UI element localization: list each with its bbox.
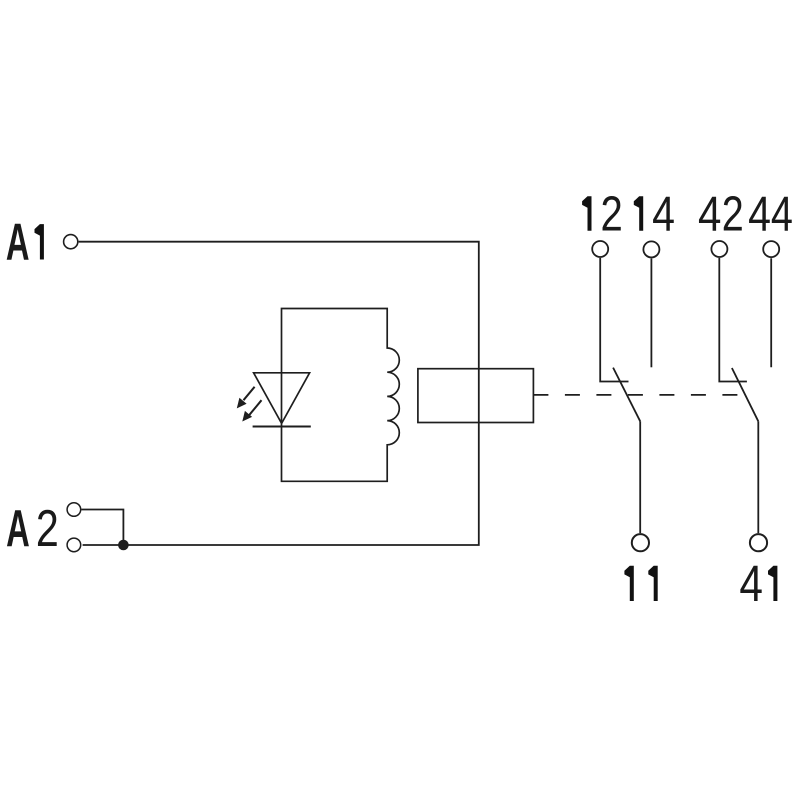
terminal 11 — [632, 534, 649, 551]
LED light arrow 2 — [242, 400, 261, 421]
label 42 — [698, 185, 744, 241]
wire A2 upper to junction — [81, 510, 123, 546]
svg-text:2: 2 — [36, 500, 59, 557]
LED D1 cathode bar — [253, 426, 311, 428]
svg-text:4: 4 — [771, 187, 793, 242]
svg-text:A: A — [6, 214, 30, 271]
terminal 44 — [763, 241, 779, 257]
label A2 — [6, 500, 59, 558]
LED D1 triangle — [254, 373, 310, 424]
wire A1 to coil to A2 junction — [79, 242, 479, 545]
svg-text:4: 4 — [739, 555, 763, 612]
svg-text:2: 2 — [600, 186, 622, 242]
LED light arrow 1 — [237, 387, 255, 409]
wire terminal 14 down to NO contact tip — [650, 258, 652, 367]
relay box K1 — [418, 369, 534, 423]
svg-text:2: 2 — [722, 187, 744, 242]
svg-text:A: A — [6, 501, 30, 558]
actuating dashed link — [533, 394, 737, 396]
contact armature 41-42 — [732, 368, 758, 421]
svg-text:4: 4 — [698, 185, 721, 241]
label 11 — [624, 566, 657, 601]
terminal A2 lower — [67, 538, 81, 552]
terminal 42 — [711, 241, 727, 257]
label 41 — [739, 555, 777, 612]
terminal 14 — [643, 241, 659, 257]
junction node A2 — [118, 540, 129, 551]
input block frame with coil K1 winding on right edge — [282, 309, 400, 482]
terminal A2 upper — [67, 503, 81, 517]
terminal A1 — [64, 235, 78, 249]
wire armature to terminal 41 — [757, 421, 759, 533]
svg-text:4: 4 — [652, 186, 675, 241]
label 44 — [748, 186, 793, 242]
wire terminal 44 down to NO contact tip — [770, 258, 772, 367]
terminal 41 — [750, 534, 767, 551]
contact armature 11-12 — [613, 368, 640, 422]
label A1 — [6, 214, 44, 271]
wire terminal 42 down to NC contact seat — [719, 258, 747, 382]
label 14 — [634, 186, 675, 241]
wire terminal 12 down to NC contact seat — [600, 258, 628, 382]
terminal 12 — [592, 241, 608, 257]
wire armature to terminal 11 — [639, 421, 641, 533]
svg-text:4: 4 — [748, 186, 771, 241]
label 12 — [582, 186, 623, 242]
